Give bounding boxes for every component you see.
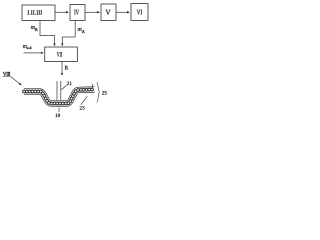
wire R output of block VII: [61, 62, 63, 76]
label m_A: [78, 27, 86, 34]
brace 25: [97, 82, 100, 102]
wire m_A from block IV to block VII: [62, 21, 75, 46]
membrane band: [24, 90, 95, 104]
svg-text:V: V: [105, 9, 110, 17]
svg-text:25: 25: [102, 91, 108, 97]
svg-text:IV: IV: [74, 9, 79, 17]
tick at right end of membrane: [91, 84, 93, 89]
label m_R: [31, 25, 38, 32]
svg-text:soll: soll: [27, 46, 32, 50]
svg-text:R: R: [35, 27, 38, 32]
wire V to VI: [116, 11, 130, 13]
leader 23: [81, 96, 87, 105]
svg-text:21: 21: [67, 81, 73, 87]
wire IV to V: [85, 11, 100, 13]
label m_soll: [23, 44, 32, 50]
wire I.II.III to IV: [55, 11, 69, 13]
block VII: [45, 47, 78, 62]
svg-text:A: A: [82, 29, 86, 34]
leader arrow from VIII to membrane: [11, 77, 22, 86]
block V: [101, 4, 116, 21]
block VI: [131, 4, 148, 21]
svg-text:VII: VII: [57, 51, 62, 58]
wire m_soll input arrow: [24, 52, 44, 54]
svg-text:I.II.III: I.II.III: [27, 9, 42, 16]
wire m_R from block I.II.III to block VII: [40, 21, 55, 46]
svg-text:VI: VI: [137, 8, 143, 16]
rod 21: [57, 81, 61, 100]
label VIII underlined: [3, 71, 11, 77]
svg-text:R: R: [65, 66, 69, 72]
svg-text:23: 23: [80, 106, 86, 112]
leader 21: [61, 85, 66, 90]
svg-text:19: 19: [55, 113, 61, 119]
leader 19: [58, 108, 60, 113]
block I.II.III: [22, 5, 55, 21]
block IV: [70, 5, 85, 21]
